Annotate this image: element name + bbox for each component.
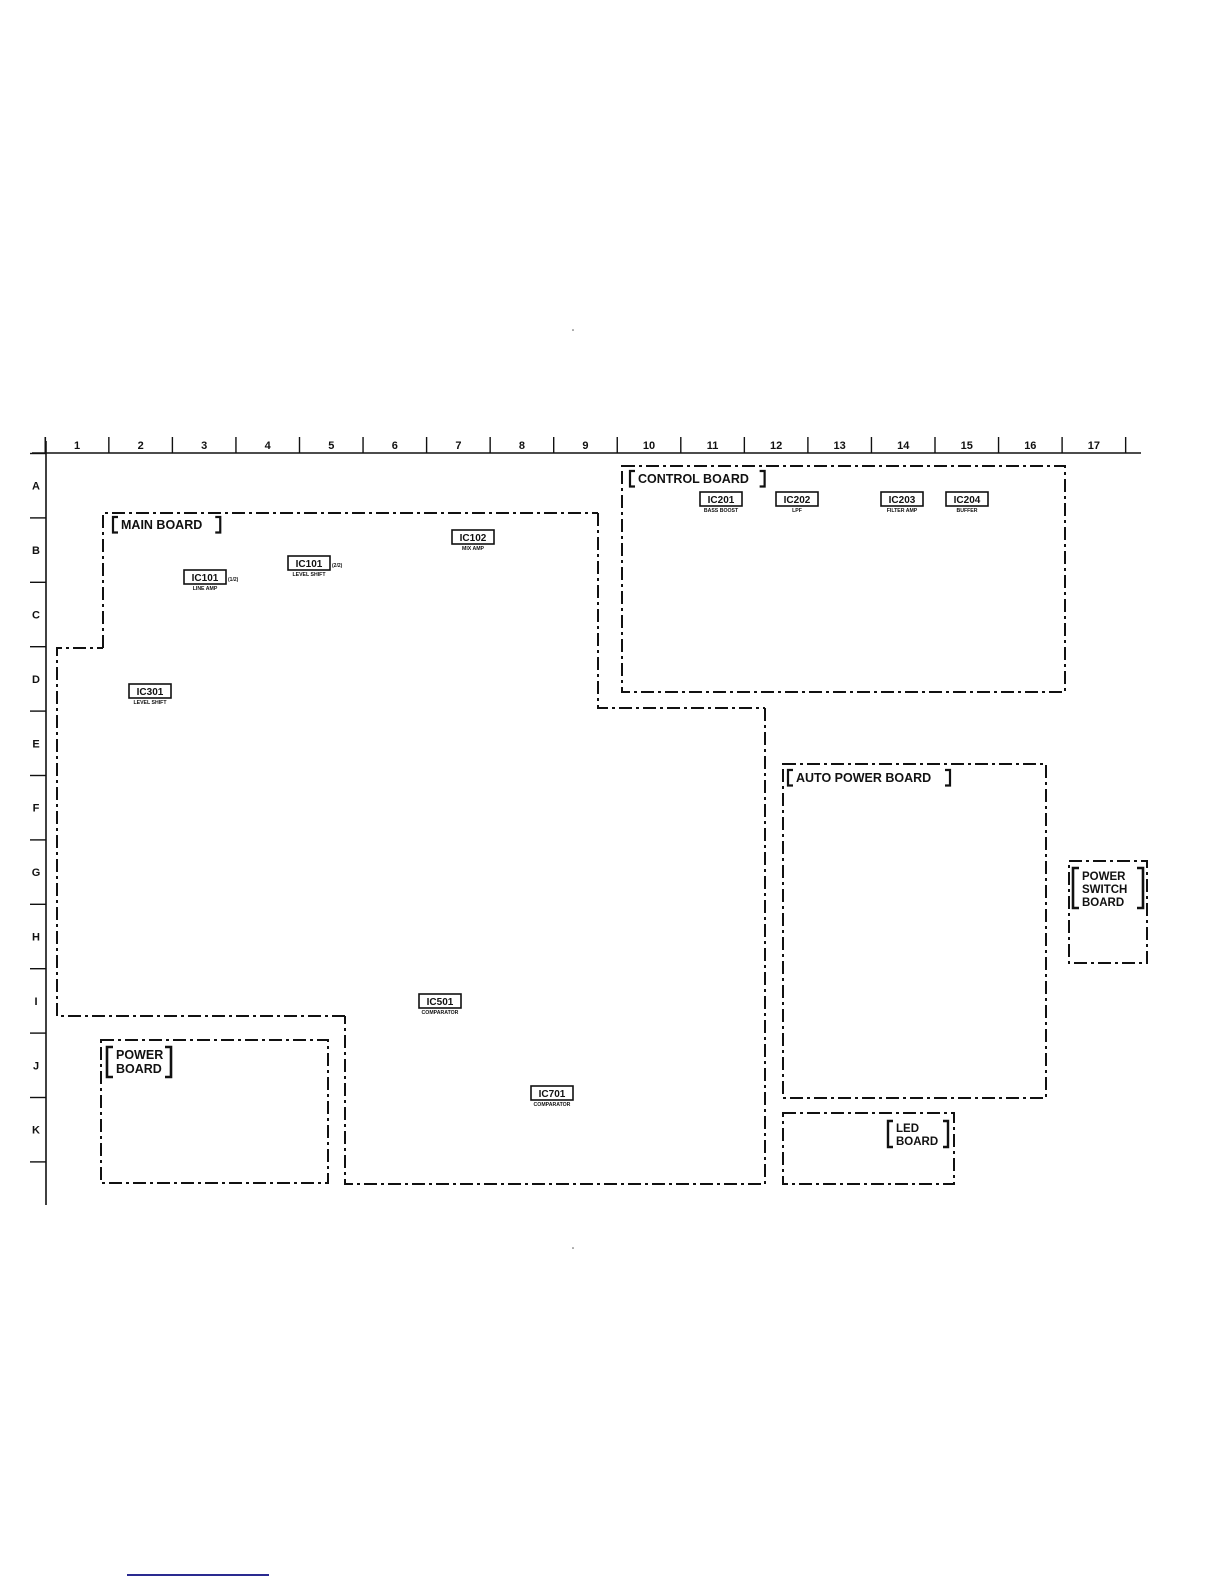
svg-text:4: 4: [265, 440, 272, 452]
svg-text:IC101: IC101: [296, 559, 323, 570]
svg-text:11: 11: [707, 440, 719, 452]
svg-text:B: B: [32, 545, 40, 557]
svg-text:BOARD: BOARD: [116, 1062, 162, 1076]
svg-text:J: J: [33, 1060, 39, 1072]
svg-text:(1/2): (1/2): [228, 577, 239, 583]
svg-text:BUFFER: BUFFER: [956, 508, 977, 514]
svg-text:IC501: IC501: [427, 997, 454, 1008]
svg-text:7: 7: [455, 440, 461, 452]
svg-text:D: D: [32, 674, 40, 686]
svg-text:1: 1: [74, 440, 80, 452]
svg-text:6: 6: [392, 440, 398, 452]
svg-text:13: 13: [834, 440, 846, 452]
svg-text:E: E: [32, 738, 39, 750]
svg-text:A: A: [32, 481, 40, 493]
svg-text:9: 9: [582, 440, 588, 452]
svg-text:IC204: IC204: [954, 495, 981, 506]
svg-text:IC101: IC101: [192, 573, 219, 584]
svg-text:16: 16: [1024, 440, 1036, 452]
svg-text:SWITCH: SWITCH: [1082, 884, 1127, 896]
svg-text:8: 8: [519, 440, 525, 452]
svg-text:17: 17: [1088, 440, 1100, 452]
svg-text:3: 3: [201, 440, 207, 452]
svg-text:5: 5: [328, 440, 334, 452]
svg-text:14: 14: [897, 440, 910, 452]
svg-text:CONTROL BOARD: CONTROL BOARD: [638, 472, 749, 486]
svg-text:LPF: LPF: [792, 508, 802, 514]
svg-text:FILTER AMP: FILTER AMP: [887, 508, 918, 514]
svg-text:AUTO POWER BOARD: AUTO POWER BOARD: [796, 771, 931, 785]
svg-text:LEVEL SHIFT: LEVEL SHIFT: [133, 700, 167, 706]
svg-text:H: H: [32, 932, 40, 944]
svg-text:IC202: IC202: [784, 495, 811, 506]
svg-text:LINE AMP: LINE AMP: [193, 586, 218, 592]
svg-text:10: 10: [643, 440, 655, 452]
svg-text:C: C: [32, 610, 40, 622]
svg-text:2: 2: [138, 440, 144, 452]
svg-text:POWER: POWER: [1082, 871, 1126, 883]
svg-text:LEVEL SHIFT: LEVEL SHIFT: [292, 572, 326, 578]
svg-text:POWER: POWER: [116, 1048, 163, 1062]
svg-text:K: K: [32, 1125, 40, 1137]
svg-text:MAIN BOARD: MAIN BOARD: [121, 518, 202, 532]
svg-text:BASS BOOST: BASS BOOST: [704, 508, 739, 514]
svg-text:G: G: [32, 867, 41, 879]
svg-text:BOARD: BOARD: [896, 1136, 938, 1148]
svg-text:15: 15: [961, 440, 973, 452]
svg-text:(2/2): (2/2): [332, 563, 343, 569]
svg-text:IC203: IC203: [889, 495, 916, 506]
svg-text:12: 12: [770, 440, 782, 452]
svg-text:COMPARATOR: COMPARATOR: [534, 1102, 571, 1108]
svg-text:LED: LED: [896, 1123, 919, 1135]
svg-text:MIX AMP: MIX AMP: [462, 546, 485, 552]
svg-text:IC201: IC201: [708, 495, 735, 506]
svg-text:BOARD: BOARD: [1082, 897, 1124, 909]
svg-text:F: F: [33, 803, 40, 815]
svg-text:I: I: [34, 996, 37, 1008]
svg-text:IC102: IC102: [460, 533, 487, 544]
svg-text:IC701: IC701: [539, 1089, 566, 1100]
svg-text:COMPARATOR: COMPARATOR: [422, 1010, 459, 1016]
svg-text:IC301: IC301: [137, 687, 164, 698]
